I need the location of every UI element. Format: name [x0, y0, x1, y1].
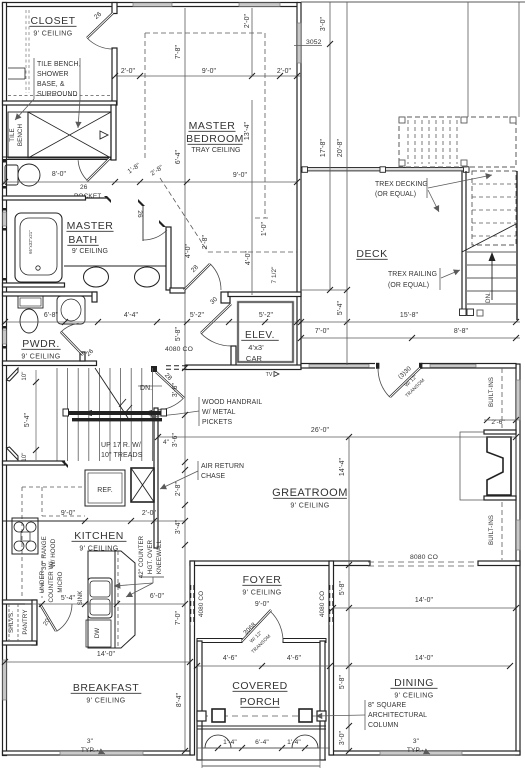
porch west wall: [197, 641, 202, 760]
svg-text:DECK: DECK: [356, 248, 387, 260]
powder cabinet: [18, 296, 43, 308]
svg-text:SINK: SINK: [77, 590, 84, 606]
svg-text:6'-0": 6'-0": [150, 593, 165, 600]
svg-text:TILE: TILE: [9, 128, 16, 141]
svg-text:14'-4": 14'-4": [339, 457, 346, 476]
svg-text:30" RANGE: 30" RANGE: [41, 536, 48, 570]
svg-text:5'-8": 5'-8": [339, 674, 346, 689]
wall foot at hall: [170, 288, 185, 293]
sink double bowl: [88, 578, 112, 618]
svg-text:TRAY CEILING: TRAY CEILING: [191, 147, 240, 154]
svg-text:TILE BENCH,: TILE BENCH,: [37, 61, 81, 68]
deck bottom post: [477, 310, 483, 316]
dim 14-0 breakfast: [5, 661, 190, 663]
svg-text:17'-8": 17'-8": [320, 138, 327, 157]
svg-text:5'-4": 5'-4": [24, 412, 31, 427]
svg-text:5'-2": 5'-2": [259, 312, 274, 319]
porch east wall: [320, 641, 325, 760]
svg-text:3'-6": 3'-6": [172, 382, 179, 397]
svg-text:6'-8": 6'-8": [44, 312, 59, 319]
svg-text:3052: 3052: [306, 39, 322, 46]
deck stair rails: [461, 171, 463, 309]
fridge: [85, 470, 125, 506]
door 28 stairs: [156, 372, 184, 398]
wall jamb marks left: [2, 160, 7, 163]
svg-text:7 1/2": 7 1/2": [271, 266, 278, 283]
svg-text:2'-0": 2'-0": [142, 510, 157, 517]
exterior wall left: [3, 3, 7, 756]
fireplace firebox: [487, 437, 511, 495]
powder south wall: [3, 361, 97, 366]
exterior wall right lower: [516, 364, 520, 755]
svg-text:SURROUND: SURROUND: [37, 91, 78, 98]
porch step dim: [197, 747, 330, 749]
deck lower stairs dashed: [472, 171, 516, 245]
svg-text:10": 10": [22, 371, 28, 380]
svg-text:MASTER: MASTER: [189, 120, 236, 132]
svg-text:8080 CO: 8080 CO: [410, 554, 438, 561]
svg-text:42" COUNTER: 42" COUNTER: [138, 535, 145, 578]
svg-text:5'-8": 5'-8": [339, 580, 346, 595]
door 28 bedroom hall: [184, 264, 210, 290]
svg-text:4'x3': 4'x3': [248, 343, 264, 352]
svg-text:4": 4": [163, 439, 169, 446]
svg-text:7'-0": 7'-0": [175, 610, 182, 625]
svg-text:9' CEILING: 9' CEILING: [21, 354, 60, 361]
svg-text:GREATROOM: GREATROOM: [272, 487, 348, 499]
svg-text:PORCH: PORCH: [240, 696, 280, 708]
closet east wall: [112, 48, 117, 105]
window left breakfast: [3, 660, 7, 700]
svg-text:DN.: DN.: [140, 385, 152, 392]
svg-text:UP 17 R. W/: UP 17 R. W/: [101, 442, 141, 449]
pocket door leaf: [85, 197, 107, 199]
svg-text:8'-0": 8'-0": [52, 171, 67, 178]
bath south wall: [3, 283, 65, 287]
dim kitchen y605: [25, 603, 185, 605]
foyer north wall: [190, 561, 370, 566]
dim y290: [301, 289, 347, 291]
svg-text:6'-4": 6'-4": [255, 739, 269, 746]
svg-text:14'-0": 14'-0": [415, 597, 434, 604]
closet shelves: [8, 67, 25, 69]
svg-text:COUNTER W/: COUNTER W/: [48, 561, 55, 602]
dim 26-0: [158, 436, 516, 438]
island: [88, 551, 115, 648]
window 3052: [297, 23, 301, 63]
dishwasher: [86, 620, 111, 647]
toilet WC: [5, 165, 18, 185]
vertical dim x252: [251, 8, 253, 76]
vert dim x349: [348, 437, 350, 751]
svg-text:REF.: REF.: [97, 487, 113, 494]
porch edge dashed: [202, 715, 320, 717]
window top 2: [239, 3, 280, 7]
door 26 closet: [87, 13, 113, 38]
pantry east wall: [32, 600, 37, 645]
foyer west wall: [190, 561, 195, 755]
svg-text:AIR RETURN: AIR RETURN: [201, 463, 244, 470]
greatroom north wall: [301, 364, 516, 369]
kitchen counters dashed: [22, 486, 85, 488]
stair west chamfers: [7, 368, 19, 381]
svg-text:W/ METAL: W/ METAL: [202, 409, 236, 416]
svg-text:BATH: BATH: [68, 234, 97, 246]
svg-text:7'-0": 7'-0": [315, 328, 330, 335]
shower door leaf: [87, 158, 110, 181]
svg-text:6'-4": 6'-4": [175, 149, 182, 164]
window top 1: [133, 3, 172, 7]
stair treads: [56, 368, 58, 461]
elevator north wall: [228, 292, 301, 297]
deck dim x519: [518, 3, 520, 118]
air return chase: [131, 468, 154, 502]
svg-text:9'-0": 9'-0": [255, 601, 270, 608]
svg-text:BUILT-INS: BUILT-INS: [488, 515, 495, 545]
deck upper stairs dashed: [399, 117, 516, 167]
svg-text:BUILT-INS: BUILT-INS: [488, 377, 495, 407]
shower head symbol: [100, 131, 108, 139]
svg-text:9' CEILING: 9' CEILING: [290, 503, 329, 510]
window left powder: [3, 330, 7, 344]
door 20 pantry: [40, 604, 56, 631]
porch north wall west: [197, 639, 242, 643]
pantry north wall: [3, 600, 37, 604]
bath door leaf: [142, 206, 144, 241]
svg-text:9'-0": 9'-0": [61, 510, 76, 517]
vertical dim x185: [184, 8, 186, 662]
elevator car: [238, 302, 293, 362]
svg-text:CAR: CAR: [246, 354, 263, 363]
svg-text:7'-8": 7'-8": [175, 44, 182, 59]
greatroom window 2: [430, 364, 476, 367]
svg-text:MASTER: MASTER: [67, 220, 114, 232]
svg-text:4080 CO: 4080 CO: [198, 591, 205, 617]
svg-text:26'-0": 26'-0": [311, 427, 330, 434]
svg-text:5'-4": 5'-4": [337, 300, 344, 315]
svg-text:TREX DECKING: TREX DECKING: [375, 181, 428, 188]
svg-text:BEDROOM: BEDROOM: [186, 133, 244, 145]
exterior wall right upper: [297, 3, 301, 366]
porch north wall east: [283, 639, 326, 643]
svg-text:10" TREADS: 10" TREADS: [101, 452, 143, 459]
closet south wall: [3, 101, 117, 105]
svg-text:TREX RAILING: TREX RAILING: [388, 271, 437, 278]
svg-text:COLUMN: COLUMN: [368, 722, 398, 729]
svg-text:BASE, &: BASE, &: [37, 81, 65, 88]
svg-text:13'-4": 13'-4": [244, 121, 251, 140]
svg-text:(OR EQUAL): (OR EQUAL): [388, 282, 429, 289]
built-ins lower: [501, 502, 503, 560]
powder north wall: [3, 292, 97, 296]
svg-text:8'-8": 8'-8": [454, 328, 469, 335]
svg-text:4080 CO: 4080 CO: [319, 591, 326, 617]
window breakfast: [60, 751, 143, 755]
svg-text:PANTRY: PANTRY: [22, 609, 29, 634]
door 3068: [242, 610, 271, 641]
deck dim x330: [329, 3, 331, 291]
door leaf (3)30: [390, 368, 420, 397]
window right 2: [516, 520, 520, 550]
svg-text:(OR EQUAL): (OR EQUAL): [375, 191, 416, 198]
powder east stub: [92, 292, 97, 302]
tray ceiling dashed: [145, 32, 265, 34]
svg-text:9' CEILING: 9' CEILING: [72, 248, 108, 255]
window left bath: [3, 212, 7, 226]
dim porch 4-6: [197, 665, 330, 667]
stair break line: [462, 224, 516, 252]
svg-text:MICRO: MICRO: [57, 571, 64, 592]
svg-text:4'-0": 4'-0": [185, 243, 192, 258]
vanity counter: [64, 265, 168, 267]
powder sink: [57, 296, 85, 324]
door 26 powder: [61, 332, 83, 355]
svg-text:TYP.: TYP.: [81, 747, 95, 754]
stair south wall: [3, 461, 65, 465]
deck stair right frame: [516, 171, 518, 320]
dim dining 14-0: [333, 665, 510, 667]
svg-text:2'-0": 2'-0": [244, 13, 251, 28]
svg-text:HGT. OVER: HGT. OVER: [147, 539, 154, 574]
svg-text:1'-0": 1'-0": [261, 221, 268, 236]
range: [12, 518, 38, 554]
dashed diagonal opening: [160, 178, 208, 252]
closet east wall stub: [112, 3, 117, 14]
svg-text:3'-0": 3'-0": [320, 16, 327, 31]
svg-text:BENCH: BENCH: [17, 124, 24, 146]
dim top: [115, 75, 301, 77]
svg-text:3'-4": 3'-4": [175, 519, 182, 534]
svg-text:1'-4": 1'-4": [223, 739, 237, 746]
svg-text:9' CEILING: 9' CEILING: [33, 31, 72, 38]
exterior wall bottom left: [3, 751, 193, 755]
elevator north jog: [221, 292, 230, 303]
svg-text:8'-4": 8'-4": [176, 692, 183, 707]
svg-text:9'-0": 9'-0": [202, 68, 217, 75]
fireplace bottom wall: [484, 496, 516, 500]
window dining: [380, 751, 462, 755]
svg-text:26: 26: [136, 210, 143, 218]
greatroom west wall: [154, 408, 158, 548]
svg-text:WOOD HANDRAIL: WOOD HANDRAIL: [202, 399, 262, 406]
powder toilet: [20, 309, 38, 333]
dim line y322: [3, 321, 521, 323]
svg-text:4'-0": 4'-0": [245, 250, 252, 265]
bathtub: [15, 213, 62, 282]
svg-text:5'-2": 5'-2": [190, 312, 205, 319]
greatroom window 1: [309, 364, 369, 367]
svg-text:26: 26: [80, 184, 88, 191]
stair handrail: [68, 411, 162, 415]
svg-text:5'-8": 5'-8": [175, 326, 182, 341]
svg-text:KNEEWALL: KNEEWALL: [156, 539, 163, 574]
svg-text:2'-8": 2'-8": [202, 234, 209, 249]
dim y338: [301, 337, 520, 339]
porch columns: [197, 711, 206, 721]
fireplace hearth: [460, 432, 516, 500]
svg-text:FOYER: FOYER: [243, 574, 282, 586]
svg-text:TYP.: TYP.: [407, 747, 421, 754]
svg-text:9' CEILING: 9' CEILING: [242, 590, 281, 597]
shower east wall: [111, 105, 116, 160]
svg-text:4080 CO: 4080 CO: [165, 346, 193, 353]
counter edge: [3, 520, 85, 522]
built-ins upper: [501, 368, 503, 428]
landing edge: [138, 385, 162, 387]
stair direction line: [95, 368, 128, 418]
exterior wall top: [3, 3, 298, 7]
svg-text:COVERED: COVERED: [232, 680, 287, 692]
dim y182: [115, 181, 297, 183]
svg-text:3": 3": [87, 738, 94, 745]
svg-text:3": 3": [413, 738, 420, 745]
svg-text:CHASE: CHASE: [201, 473, 226, 480]
elevator south wall: [185, 365, 301, 370]
closet shelf dashed: [8, 95, 112, 97]
dining west wall: [329, 561, 334, 755]
closet rod dashed: [25, 10, 27, 93]
svg-text:9' CEILING: 9' CEILING: [86, 698, 125, 705]
svg-text:10": 10": [22, 452, 28, 461]
wc south wall: [3, 196, 86, 200]
shower curb: [2, 156, 111, 158]
svg-text:2'-8": 2'-8": [175, 481, 182, 496]
svg-text:20'-8": 20'-8": [337, 138, 344, 157]
greatroom south wall east: [478, 561, 520, 566]
exterior wall bottom right: [330, 751, 520, 755]
deck dim x347: [346, 3, 348, 366]
svg-text:KITCHEN: KITCHEN: [74, 530, 124, 542]
svg-text:2'-0": 2'-0": [121, 68, 136, 75]
svg-text:15'-8": 15'-8": [400, 312, 419, 319]
svg-text:ARCHITECTURAL: ARCHITECTURAL: [368, 712, 427, 719]
svg-text:1'-4": 1'-4": [287, 739, 301, 746]
svg-text:CLOSET: CLOSET: [30, 15, 75, 27]
window right 1: [516, 380, 520, 420]
deck rail top: [301, 168, 469, 171]
svg-text:4'-6": 4'-6": [223, 655, 238, 662]
8080 CO dashed opening: [368, 561, 478, 563]
dim dining upper: [333, 607, 516, 609]
svg-text:PICKETS: PICKETS: [202, 419, 232, 426]
elevator west wall: [231, 346, 236, 369]
svg-text:TV: TV: [266, 372, 273, 378]
svg-text:BREAKFAST: BREAKFAST: [73, 682, 139, 694]
svg-text:5'-4": 5'-4": [61, 595, 76, 602]
dim kitchen y520: [85, 520, 185, 522]
svg-text:UNDER: UNDER: [39, 570, 46, 593]
bath east wall: [166, 227, 171, 290]
svg-text:9' CEILING: 9' CEILING: [394, 693, 433, 700]
CO dashes stairs: [166, 365, 190, 367]
svg-text:3'-6": 3'-6": [172, 432, 179, 447]
door (3)30 jambs: [375, 363, 421, 370]
door 30 elev hall: [201, 304, 231, 333]
DN arrow deck: [491, 258, 493, 300]
svg-text:PWDR.: PWDR.: [22, 338, 60, 350]
svg-text:4'-4": 4'-4": [124, 312, 139, 319]
svg-text:SHOWER: SHOWER: [37, 71, 69, 78]
svg-text:DW: DW: [94, 628, 101, 639]
deck dim x468: [467, 3, 469, 118]
pantry south wall: [3, 641, 37, 645]
deck top line: [301, 1, 525, 3]
svg-text:2'-0": 2'-0": [277, 68, 292, 75]
svg-text:14'-0": 14'-0": [415, 655, 434, 662]
vertical dim x252 lower: [251, 100, 253, 295]
svg-text:9'-0": 9'-0": [233, 172, 248, 179]
svg-text:DINING: DINING: [394, 677, 434, 689]
svg-text:14'-0": 14'-0": [97, 651, 116, 658]
svg-text:DN.: DN.: [485, 292, 492, 303]
fireplace top wall: [484, 430, 516, 434]
svg-text:4'-6": 4'-6": [287, 655, 302, 662]
svg-text:3'-0": 3'-0": [339, 730, 346, 745]
svg-text:66"x32"x21": 66"x32"x21": [28, 230, 33, 254]
porch steps: [197, 725, 326, 727]
powder door jamb: [80, 352, 85, 361]
tile bench seat: [8, 112, 28, 158]
deck stair treads: [467, 251, 516, 253]
svg-text:8" SQUARE: 8" SQUARE: [368, 702, 406, 709]
svg-text:ELEV.: ELEV.: [245, 330, 275, 341]
